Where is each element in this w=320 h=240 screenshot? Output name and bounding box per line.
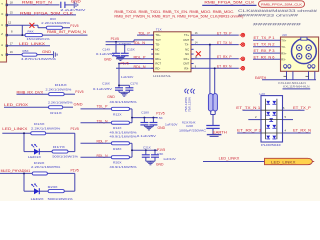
svg-text:NC: NC	[155, 52, 159, 56]
svg-text:LED_LINKX: LED_LINKX	[219, 157, 240, 161]
svg-text:R14X: R14X	[113, 126, 122, 130]
svg-text:49.9/1/16W/5%: 49.9/1/16W/5%	[110, 135, 137, 139]
svg-text:LED2X: LED2X	[31, 197, 44, 201]
svg-text:ET_TX_P: ET_TX_P	[217, 31, 232, 35]
svg-text:NC: NC	[155, 47, 159, 51]
svg-text:LED_LINKX: LED_LINKX	[271, 161, 297, 165]
svg-text:RMB_INT_PWDN_N: RMB_INT_PWDN_N	[47, 30, 87, 34]
svg-text:TCT: TCT	[155, 38, 161, 42]
svg-text:RD-: RD-	[155, 66, 160, 70]
svg-text:12: 12	[8, 20, 11, 24]
svg-text:EARTH: EARTH	[213, 131, 228, 135]
svg-text:RX+: RX+	[281, 52, 287, 56]
svg-text:T1X: T1X	[156, 27, 162, 31]
svg-text:ET_RX_P: ET_RX_P	[217, 55, 232, 59]
svg-text:N: N	[1, 53, 3, 57]
svg-text:7.5K: 7.5K	[156, 116, 163, 120]
svg-text:TX+: TX+	[281, 39, 286, 43]
svg-text:R13X: R13X	[34, 122, 45, 126]
svg-text:RMB_FPGA_50M_CLK: RMB_FPGA_50M_CLK	[204, 1, 255, 5]
svg-text:RMB_INT_PWDN_N. RMB_RST_N. RMB: RMB_INT_PWDN_N. RMB_RST_N. RMB_FPGA_50M_…	[114, 15, 243, 19]
svg-text:C: C	[1, 23, 3, 27]
svg-text:RDL_N: RDL_N	[134, 65, 147, 69]
svg-text:A: A	[1, 43, 3, 47]
svg-text:0.1uF/25V: 0.1uF/25V	[96, 52, 116, 56]
svg-text:C21X: C21X	[143, 146, 151, 150]
svg-text:ET_TX_N 1: ET_TX_N 1	[236, 106, 260, 110]
svg-text:TDL_P: TDL_P	[138, 32, 151, 36]
svg-text:2.2K/1/16W/5%: 2.2K/1/16W/5%	[48, 100, 73, 104]
svg-text:RX-: RX-	[281, 58, 286, 62]
svg-text:##########: ##########	[253, 23, 302, 27]
svg-text:49.9/1/16W/5%: 49.9/1/16W/5%	[110, 100, 137, 104]
svg-text:75/0.125W: 75/0.125W	[184, 96, 188, 112]
svg-text:ET_TX_P: ET_TX_P	[293, 106, 312, 110]
svg-text:O: O	[1, 12, 3, 16]
svg-text:ET_RX_N: ET_RX_N	[217, 64, 232, 68]
svg-text:49.9/1/16W/5%: 49.9/1/16W/5%	[110, 165, 137, 169]
svg-text:LED_LINKX: LED_LINKX	[2, 127, 28, 131]
svg-text:C18X: C18X	[141, 110, 149, 114]
svg-text:C20X: C20X	[186, 124, 193, 128]
svg-text:P1V5: P1V5	[71, 127, 79, 131]
svg-text:P1V5: P1V5	[121, 62, 129, 66]
svg-text:NC: NC	[185, 52, 189, 56]
svg-text:2.2K/1/16W/5%: 2.2K/1/16W/5%	[31, 126, 61, 130]
svg-text:TDL_P: TDL_P	[97, 105, 109, 109]
svg-text:GND: GND	[74, 102, 84, 106]
svg-text:R11X: R11X	[50, 111, 62, 115]
svg-text:R18X: R18X	[113, 147, 122, 151]
svg-text:500/1/16W/1%: 500/1/16W/1%	[48, 197, 73, 201]
svg-text:500/1/16W/1%: 500/1/16W/1%	[52, 154, 78, 158]
svg-text:P1V5: P1V5	[70, 24, 78, 28]
svg-text:TDL_N: TDL_N	[133, 41, 146, 45]
svg-text:ET_TX_N 2: ET_TX_N 2	[254, 43, 275, 47]
svg-text:KXL11R-N64-HLN: KXL11R-N64-HLN	[283, 85, 309, 89]
svg-text:LED1X: LED1X	[28, 155, 41, 159]
svg-text:ET_RX_N 6: ET_RX_N 6	[254, 55, 275, 59]
svg-text:P1V5: P1V5	[156, 112, 164, 116]
svg-text:MLED_PHYAD0#1: MLED_PHYAD0#1	[1, 169, 31, 173]
svg-text:GND: GND	[42, 50, 52, 54]
svg-text:R4X: R4X	[28, 30, 34, 34]
svg-text:7.5K: 7.5K	[157, 152, 164, 156]
svg-text:17: 17	[10, 41, 13, 45]
svg-text:C17X: C17X	[130, 82, 138, 86]
svg-text:GND: GND	[104, 57, 112, 61]
svg-text:RX+: RX+	[184, 57, 190, 61]
svg-text:2.2K/1/16W/5%: 2.2K/1/16W/5%	[31, 165, 61, 169]
svg-text:RMB_FPGA_50M_CLK: RMB_FPGA_50M_CLK	[261, 3, 302, 7]
svg-text:R20X: R20X	[113, 161, 122, 165]
svg-text:R5X: R5X	[23, 49, 29, 53]
svg-text:R23X: R23X	[48, 185, 58, 189]
svg-text:TX-: TX-	[281, 45, 285, 49]
svg-text:1uF/10V: 1uF/10V	[163, 157, 176, 161]
svg-text:RMB_TXD0. RMB_TXD1. RMB_TX_EN.: RMB_TXD0. RMB_TXD1. RMB_TX_EN. RMB_MDO. …	[114, 10, 234, 14]
svg-text:15/1/16W/1%: 15/1/16W/1%	[27, 37, 50, 41]
svg-text:R17X: R17X	[53, 145, 65, 149]
svg-text:TX-: TX-	[185, 43, 190, 47]
svg-text:ET_RX_P 3: ET_RX_P 3	[254, 49, 275, 53]
svg-text:C15X: C15X	[127, 48, 135, 52]
svg-text:18: 18	[10, 0, 13, 4]
svg-text:1uF/10V: 1uF/10V	[165, 123, 178, 127]
svg-text:P1V5: P1V5	[75, 90, 83, 94]
svg-text:C14X: C14X	[103, 48, 111, 52]
svg-text:2.2K/1/16W/5%: 2.2K/1/16W/5%	[46, 87, 72, 91]
svg-text:NC: NC	[185, 47, 189, 51]
svg-text:TD-: TD-	[155, 43, 160, 47]
svg-text:P1V5: P1V5	[111, 37, 119, 41]
svg-text:RDL_P: RDL_P	[134, 55, 147, 59]
svg-text:GND: GND	[158, 126, 166, 130]
svg-text:2.2K/1/16W/5%: 2.2K/1/16W/5%	[41, 21, 70, 25]
svg-text:PLR0504F: PLR0504F	[261, 143, 281, 147]
svg-text:ET_RX_N: ET_RX_N	[293, 129, 312, 133]
svg-text:P1V5: P1V5	[71, 169, 79, 173]
svg-text:GND: GND	[71, 0, 82, 3]
svg-text:RD+: RD+	[155, 57, 161, 61]
svg-text:75/0.125W: 75/0.125W	[188, 96, 192, 112]
svg-text:CMT: CMT	[183, 62, 189, 66]
svg-text:LED_LINKX: LED_LINKX	[19, 42, 46, 46]
svg-text:#######33 ohm##: #######33 ohm##	[238, 13, 298, 17]
svg-text:1000pF/250VAC: 1000pF/250VAC	[179, 129, 206, 133]
svg-text:0.1uF/25V: 0.1uF/25V	[137, 134, 157, 138]
svg-text:LED_CR0X: LED_CR0X	[4, 103, 29, 107]
svg-text:0.1uF/25V: 0.1uF/25V	[93, 87, 113, 91]
svg-text:1uF/10V: 1uF/10V	[121, 75, 134, 79]
svg-text:TD+: TD+	[155, 33, 161, 37]
svg-text:ET_RX_P 3: ET_RX_P 3	[237, 129, 261, 133]
svg-text:15: 15	[10, 11, 13, 15]
svg-text:ET_TX_P 1: ET_TX_P 1	[254, 36, 275, 40]
svg-text:TX+: TX+	[184, 33, 190, 37]
svg-text:RMB_RST_N: RMB_RST_N	[22, 1, 53, 5]
svg-text:RMB_FPGA_50M_CLK: RMB_FPGA_50M_CLK	[20, 11, 74, 15]
svg-text:GND: GND	[107, 95, 115, 99]
svg-text:GND: GND	[156, 162, 164, 166]
svg-text:H1102NL: H1102NL	[153, 74, 171, 78]
svg-text:4.87K/1/16W/5%: 4.87K/1/16W/5%	[21, 57, 56, 61]
svg-text:1uF/10V: 1uF/10V	[119, 42, 132, 46]
svg-text:RCT: RCT	[155, 62, 161, 66]
svg-text:EARTH: EARTH	[255, 76, 267, 80]
svg-text:ET_TX_N: ET_TX_N	[217, 41, 232, 45]
svg-text:16: 16	[10, 50, 13, 54]
svg-text:C16X: C16X	[102, 82, 110, 86]
svg-text:R12X: R12X	[113, 112, 122, 116]
svg-text:J1X: J1X	[282, 33, 287, 37]
svg-text:CMT: CMT	[183, 38, 189, 42]
svg-text:RX-: RX-	[184, 66, 189, 70]
